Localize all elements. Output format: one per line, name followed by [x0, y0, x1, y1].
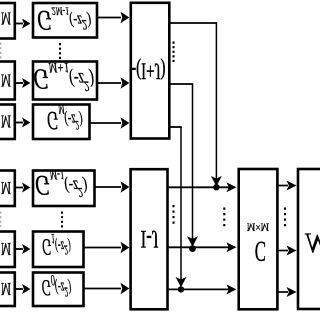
arrow M1 to G1: [15, 19, 31, 29]
upsampler box M6: [0, 273, 15, 307]
arrow C to W row 3: [278, 287, 297, 297]
svg-text:GM+1(-z2): GM+1(-z2): [33, 60, 94, 96]
junction node 2: [189, 245, 196, 252]
arrow G4 to butterfly B: [95, 181, 130, 193]
ellipsis dots right of butterfly A: [172, 42, 174, 63]
butterfly box I-J: [131, 169, 168, 309]
svg-text:G0(-z2): G0(-z2): [41, 271, 71, 300]
ellipsis dots between C and W: [284, 208, 286, 228]
filter box G_1: [33, 232, 84, 268]
arrow G1 to butterfly A: [97, 12, 129, 24]
junction node 3: [178, 286, 184, 292]
filter box G_M: [33, 105, 90, 140]
arrow M5 to G5: [15, 244, 31, 254]
filter box G_M+1: [33, 62, 97, 100]
ellipsis dots between G1 and G2: [59, 43, 61, 61]
arrow G5 to butterfly B: [84, 242, 130, 254]
svg-text:G2M-1(-z2): G2M-1(-z2): [37, 4, 91, 35]
ellipsis dots between M1 and M2: [0, 43, 2, 60]
arrow G6 to butterfly B: [84, 283, 130, 295]
transform box C MxM: [239, 169, 278, 309]
svg-text:M×M: M×M: [247, 220, 270, 233]
ellipsis dots right of butterfly B: [172, 205, 174, 225]
butterfly box -(I+J): [131, 3, 170, 139]
arrow M4 to G4: [15, 183, 31, 193]
arrowhead down into node 1: [211, 176, 222, 186]
ellipsis dots before C inputs: [223, 208, 225, 228]
svg-text:-(I+J): -(I+J): [131, 57, 165, 83]
arrow G2 to butterfly A: [97, 77, 129, 89]
svg-text:GM-1(-z2): GM-1(-z2): [35, 168, 88, 201]
ellipsis dots between M4 and M5: [0, 212, 2, 228]
svg-text:M: M: [1, 8, 11, 27]
svg-text:M: M: [1, 278, 11, 297]
wire butterfly B output 2 with arrow into C: [167, 242, 236, 252]
svg-text:M: M: [1, 177, 11, 196]
svg-text:M: M: [1, 70, 11, 89]
arrow M2 to G2: [15, 78, 31, 88]
filter box G_M-1: [33, 171, 95, 207]
arrowhead down into node 3: [176, 277, 187, 287]
arrow G3 to butterfly A: [90, 117, 130, 129]
upsampler box M1: [0, 3, 15, 39]
arrow M6 to G6: [15, 284, 31, 294]
filter box G_2M-1: [33, 3, 97, 38]
upsampler box M3: [0, 105, 15, 140]
svg-text:M: M: [1, 238, 11, 257]
svg-text:I-J: I-J: [141, 225, 159, 253]
svg-text:C: C: [255, 236, 266, 268]
arrow C to W row 2: [278, 246, 297, 256]
ellipsis dots between G4 and G5: [61, 212, 63, 229]
wire butterfly B output 1 with arrow into C: [167, 182, 236, 192]
wire butterfly B output 3 with arrow into C: [167, 284, 236, 294]
svg-text:G1(-z2): G1(-z2): [42, 230, 71, 259]
arrowhead down into node 2: [187, 236, 198, 246]
junction node 1: [213, 184, 219, 190]
wire butterfly A output 3: [169, 126, 182, 128]
arrow M3 to G3: [15, 118, 31, 128]
svg-text:GM(-z2): GM(-z2): [47, 102, 83, 135]
svg-text:W: W: [304, 229, 320, 260]
svg-text:M: M: [1, 111, 11, 130]
matrix box W: [298, 169, 320, 309]
arrow C to W row 1: [278, 181, 297, 191]
wire butterfly A output 1: [169, 22, 217, 24]
upsampler box M2: [0, 62, 15, 100]
upsampler box M4: [0, 171, 15, 207]
upsampler box M5: [0, 232, 15, 268]
filter box G_0: [33, 273, 84, 307]
wire butterfly A output 2: [169, 83, 193, 85]
